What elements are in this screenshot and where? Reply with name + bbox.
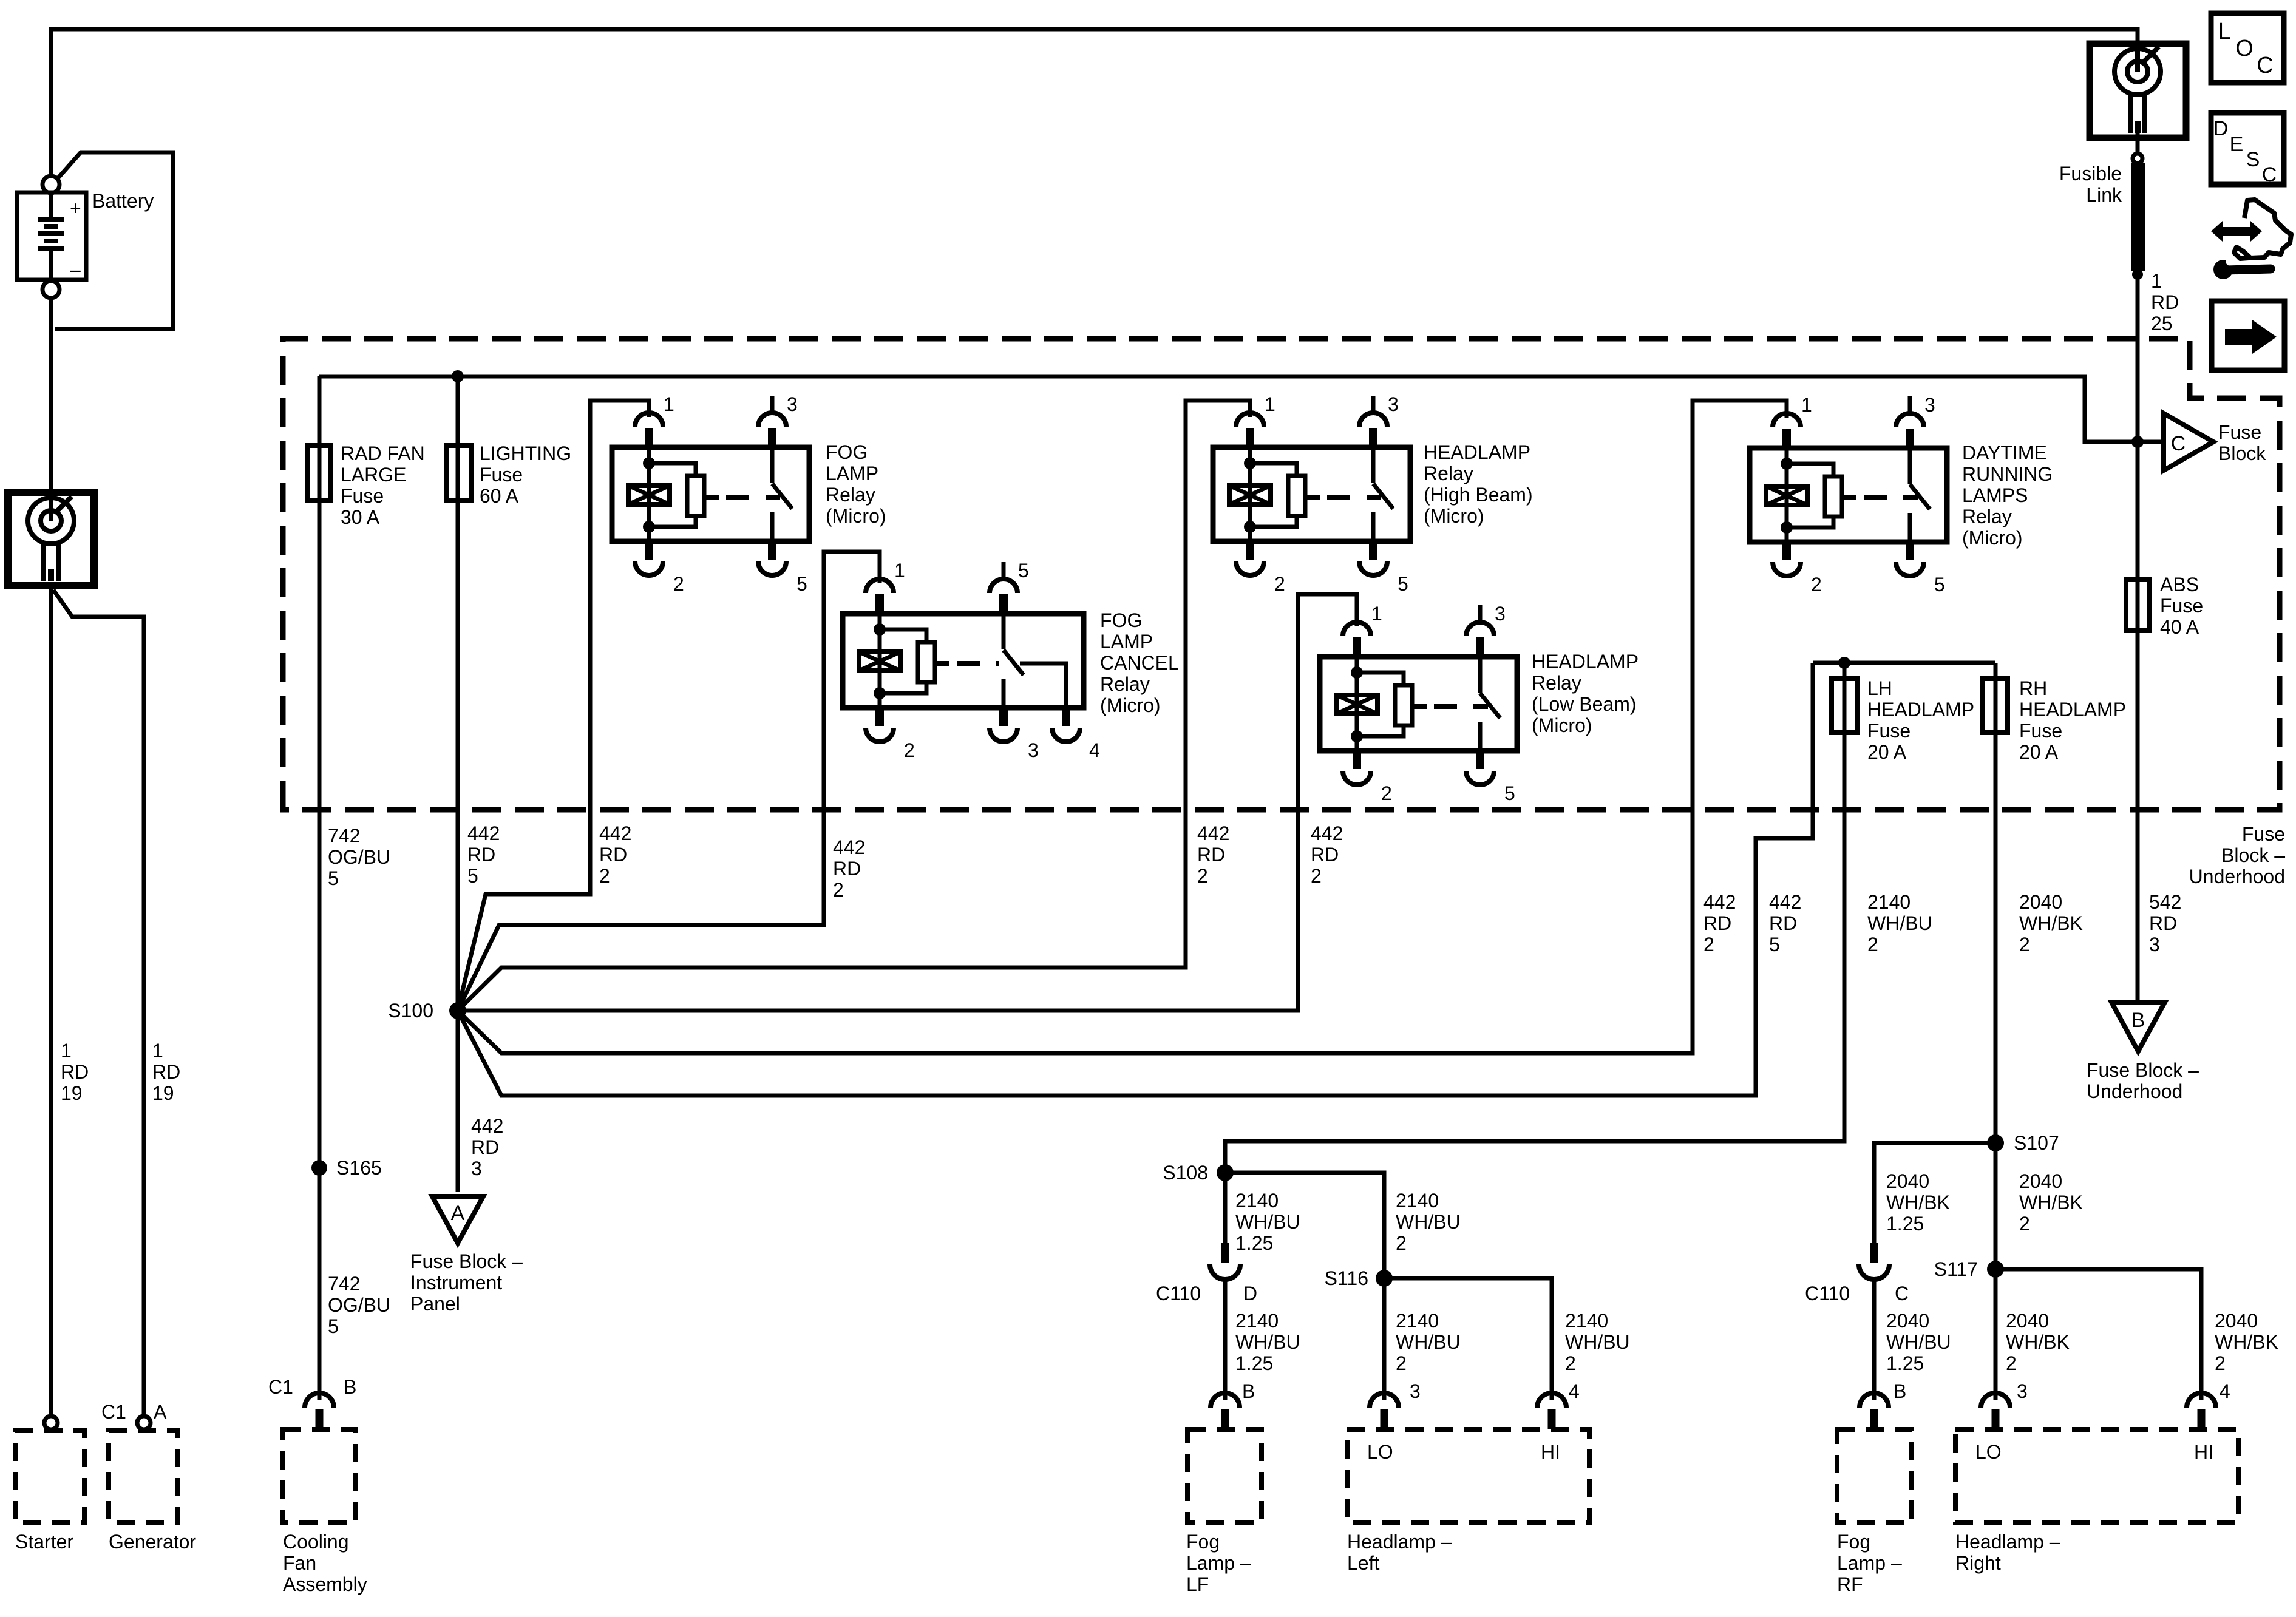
svg-text:WH/BU: WH/BU: [1235, 1211, 1300, 1233]
LH headlamp fuse: [1832, 679, 1857, 733]
svg-text:Fuse Block –: Fuse Block –: [2087, 1059, 2199, 1081]
svg-text:2140: 2140: [1235, 1310, 1279, 1332]
svg-text:(Micro): (Micro): [1532, 714, 1592, 736]
resistor: [1288, 476, 1305, 516]
svg-text:3: 3: [787, 393, 798, 415]
svg-text:4: 4: [1089, 739, 1100, 761]
svg-text:1: 1: [664, 393, 674, 415]
svg-text:HEADLAMP: HEADLAMP: [1867, 699, 1974, 720]
svg-text:2: 2: [833, 879, 844, 901]
svg-text:HEADLAMP: HEADLAMP: [1424, 441, 1530, 463]
svg-text:20 A: 20 A: [1867, 741, 1907, 763]
svg-text:Relay: Relay: [1100, 673, 1150, 695]
junction at lighting fuse riser: [452, 370, 464, 382]
svg-text:Headlamp –: Headlamp –: [1955, 1531, 2060, 1553]
pin 5: [1369, 541, 1377, 560]
svg-text:Block: Block: [2218, 442, 2266, 464]
svg-text:2140: 2140: [1565, 1310, 1608, 1332]
svg-text:Underhood: Underhood: [2087, 1080, 2182, 1102]
battery BAT- terminal (circle): [42, 281, 59, 298]
cooling fan pin B connector: [305, 1393, 334, 1408]
svg-text:442: 442: [1197, 822, 1229, 844]
svg-text:Cooling: Cooling: [283, 1531, 349, 1553]
pin 5: [1476, 751, 1484, 769]
coil: [1336, 695, 1377, 714]
svg-text:HEADLAMP: HEADLAMP: [1532, 651, 1639, 673]
generator component box: [109, 1431, 178, 1522]
pin 1: [1353, 637, 1361, 657]
svg-text:Left: Left: [1347, 1552, 1379, 1574]
svg-text:WH/BU: WH/BU: [1565, 1331, 1630, 1353]
svg-text:S: S: [2246, 148, 2260, 171]
fuse block underhood dashed outline: [283, 339, 2280, 810]
svg-text:OG/BU: OG/BU: [328, 1294, 390, 1316]
svg-text:4: 4: [1569, 1380, 1580, 1402]
switch: [770, 447, 775, 483]
svg-text:(Low Beam): (Low Beam): [1532, 693, 1637, 715]
wire: 442 RD 2 S100 to fog lamp relay pin 1: [458, 401, 649, 1011]
svg-text:RD: RD: [1197, 844, 1225, 866]
svg-text:RD: RD: [833, 858, 861, 880]
svg-text:Battery: Battery: [92, 190, 154, 212]
svg-text:HI: HI: [2194, 1441, 2213, 1463]
svg-text:D: D: [1243, 1283, 1257, 1304]
svg-text:S100: S100: [388, 1000, 433, 1022]
svg-text:LH: LH: [1867, 677, 1892, 699]
svg-text:2040: 2040: [1886, 1310, 1929, 1332]
wire: 442 RD 2 S100 to high beam relay pin 1: [458, 401, 1250, 1011]
svg-text:C1: C1: [268, 1376, 293, 1398]
switch: [1908, 448, 1912, 484]
svg-text:ABS: ABS: [2160, 574, 2199, 595]
pin 3: [1476, 637, 1484, 657]
battery box: [17, 192, 86, 280]
svg-text:RD: RD: [1769, 912, 1797, 934]
svg-text:20 A: 20 A: [2019, 741, 2059, 763]
svg-text:2: 2: [2019, 934, 2030, 955]
svg-text:5: 5: [1398, 573, 1408, 595]
fog lamp RF component box: [1837, 1429, 1912, 1522]
svg-text:1.25: 1.25: [1886, 1352, 1924, 1374]
svg-text:OG/BU: OG/BU: [328, 846, 390, 868]
headlamp right pin 4 connector: [2187, 1393, 2216, 1408]
wire: S116 branch to headlamp left HI: [1384, 1278, 1552, 1400]
svg-text:542: 542: [2149, 891, 2181, 913]
svg-text:Fusible: Fusible: [2059, 163, 2122, 185]
svg-text:442: 442: [599, 822, 631, 844]
svg-text:5: 5: [328, 867, 339, 889]
svg-text:WH/BU: WH/BU: [1396, 1211, 1461, 1233]
wire: 1 RD 25 / 542 RD 3 down to fuse block B: [2136, 274, 2140, 1002]
resistor: [1825, 476, 1842, 517]
svg-text:S107: S107: [2014, 1132, 2059, 1154]
actuator dashed link: [957, 661, 999, 666]
lighting fuse: [447, 446, 472, 501]
svg-text:5: 5: [1018, 560, 1029, 581]
svg-text:25: 25: [2151, 313, 2173, 334]
svg-text:RH: RH: [2019, 677, 2047, 699]
coil: [1766, 486, 1807, 505]
svg-text:1.25: 1.25: [1235, 1352, 1273, 1374]
svg-text:2: 2: [2006, 1352, 2017, 1374]
svg-text:40 A: 40 A: [2160, 616, 2199, 638]
wire: 442 RD 2 S100 to low beam relay pin 1: [458, 594, 1357, 1011]
svg-text:2: 2: [1311, 865, 1322, 887]
svg-text:WH/BK: WH/BK: [2215, 1331, 2278, 1353]
svg-text:1: 1: [1371, 603, 1382, 625]
svg-text:Lamp –: Lamp –: [1186, 1552, 1251, 1574]
svg-text:Relay: Relay: [1532, 672, 1581, 694]
battery ring terminal box (fusible link feed): [2090, 44, 2186, 138]
svg-text:C: C: [2262, 163, 2277, 186]
connector C110 pin D: [1221, 1243, 1229, 1263]
RH headlamp fuse: [1982, 679, 2008, 733]
svg-text:2: 2: [1381, 782, 1392, 804]
svg-text:1: 1: [152, 1040, 163, 1062]
svg-text:442: 442: [1311, 822, 1343, 844]
svg-text:B: B: [1894, 1380, 1906, 1402]
wire: RH headlamp fuse riser / 2040 WH/BK down to headlamp right: [1994, 663, 1998, 1400]
wire: battery positive feed across top to fusible link: [51, 29, 2138, 176]
fuse block B triangle (to underhood): [2111, 1002, 2165, 1051]
svg-text:Panel: Panel: [410, 1293, 460, 1315]
wire: 442 RD 5 S100 to headlamp fuse bus: [458, 663, 1813, 1096]
svg-text:5: 5: [796, 573, 807, 595]
splice S116: [1376, 1270, 1393, 1287]
svg-text:RAD FAN: RAD FAN: [341, 442, 425, 464]
svg-text:Fuse: Fuse: [2019, 720, 2062, 742]
fog lamp LF pin B connector: [1211, 1393, 1240, 1408]
wire: LH headlamp fuse riser / 2140 WH/BU to S108: [1225, 663, 1844, 1249]
svg-text:442: 442: [471, 1115, 503, 1137]
svg-text:742: 742: [328, 1273, 360, 1295]
arrow legend box: [2212, 301, 2284, 370]
wire: S107 branch to fog lamp RF: [1874, 1143, 1995, 1249]
svg-text:C: C: [1895, 1283, 1909, 1304]
svg-text:2040: 2040: [2019, 891, 2062, 913]
wire: rad fan fuse riser / 742 OG/BU to cooling fan: [318, 376, 322, 1400]
switch with NC contact to pin 4: [1002, 614, 1006, 649]
pin 2: [645, 541, 653, 560]
actuator dashed link: [1327, 495, 1381, 500]
splice S165: [311, 1160, 327, 1176]
pin 2: [1246, 541, 1254, 560]
svg-text:C1: C1: [101, 1401, 126, 1423]
svg-text:S165: S165: [336, 1157, 382, 1179]
svg-text:Starter: Starter: [15, 1531, 73, 1553]
rad fan large fuse: [307, 446, 331, 501]
resistor: [687, 476, 704, 516]
svg-text:Fuse: Fuse: [2218, 421, 2261, 443]
pin 5: [1906, 542, 1914, 560]
svg-text:2: 2: [1867, 934, 1878, 955]
svg-text:3: 3: [2149, 934, 2160, 955]
junction below fusible link: [2132, 269, 2143, 280]
headlamp right pin 3 connector: [1981, 1393, 2010, 1408]
splice S117: [1987, 1261, 2004, 1278]
svg-text:2040: 2040: [1886, 1170, 1929, 1192]
svg-text:Headlamp –: Headlamp –: [1347, 1531, 1452, 1553]
svg-text:2: 2: [904, 739, 915, 761]
svg-text:RD: RD: [2149, 912, 2177, 934]
svg-text:RD: RD: [599, 844, 627, 866]
svg-text:4: 4: [2220, 1380, 2230, 1402]
svg-text:Fuse: Fuse: [2160, 595, 2203, 617]
svg-text:–: –: [70, 259, 81, 280]
svg-text:3: 3: [1495, 603, 1506, 625]
actuator dashed link: [1864, 495, 1918, 500]
wire: ring terminal to fusible link: [2136, 133, 2140, 154]
svg-text:WH/BU: WH/BU: [1235, 1331, 1300, 1353]
battery B+ terminal (circle): [42, 176, 59, 193]
svg-text:5: 5: [1769, 934, 1780, 955]
svg-text:LARGE: LARGE: [341, 464, 406, 486]
resistor: [918, 642, 935, 682]
coil: [1229, 486, 1271, 504]
fuse block C triangle: [2164, 413, 2213, 470]
ring terminal symbol: [2114, 47, 2161, 133]
pin 1: [1782, 429, 1791, 448]
svg-text:2: 2: [599, 865, 610, 887]
svg-text:B: B: [344, 1376, 356, 1398]
svg-text:Underhood: Underhood: [2189, 866, 2285, 887]
svg-text:442: 442: [467, 822, 500, 844]
pin 3: [1369, 428, 1377, 447]
headlamp left component box: [1347, 1429, 1589, 1522]
svg-text:Fuse: Fuse: [2242, 823, 2285, 845]
svg-text:Instrument: Instrument: [410, 1272, 502, 1293]
svg-text:O: O: [2235, 36, 2254, 61]
headlamp left pin 4 connector: [1537, 1393, 1566, 1408]
svg-text:2: 2: [2019, 1213, 2030, 1235]
svg-text:3: 3: [1410, 1380, 1421, 1402]
wire: battery loop to starter branch: [55, 152, 173, 329]
svg-text:442: 442: [1769, 891, 1801, 913]
svg-text:2: 2: [1197, 865, 1208, 887]
service icon: wrench: [2213, 260, 2233, 279]
svg-text:742: 742: [328, 825, 360, 847]
svg-text:RUNNING: RUNNING: [1962, 463, 2053, 485]
svg-text:WH/BK: WH/BK: [2006, 1331, 2070, 1353]
generator cable terminal circle: [137, 1416, 151, 1429]
svg-text:2: 2: [1811, 574, 1822, 595]
fusible link terminal circle: [2133, 154, 2142, 163]
svg-text:WH/BU: WH/BU: [1867, 912, 1932, 934]
svg-text:1: 1: [894, 560, 905, 581]
svg-text:Fuse: Fuse: [341, 485, 384, 507]
svg-text:A: A: [154, 1401, 167, 1423]
svg-text:WH/BU: WH/BU: [1886, 1331, 1951, 1353]
svg-text:LAMP: LAMP: [1100, 631, 1153, 653]
svg-text:5: 5: [328, 1315, 339, 1337]
svg-text:C: C: [2171, 432, 2186, 455]
pin 3: [1906, 429, 1914, 448]
svg-text:442: 442: [833, 836, 865, 858]
svg-text:LAMPS: LAMPS: [1962, 484, 2028, 506]
fog lamp RF pin B connector: [1860, 1393, 1889, 1408]
svg-text:(Micro): (Micro): [826, 505, 886, 527]
actuator dashed link: [1434, 704, 1488, 709]
wire: S108 branch to S116: [1225, 1173, 1384, 1400]
relay DAYTIME RUNNING LAMPS Relay (Micro): [1750, 394, 2053, 595]
splice S108: [1217, 1164, 1234, 1181]
relay HEADLAMP Relay (Low Beam) (Micro): [1320, 603, 1639, 804]
svg-text:B: B: [2131, 1009, 2145, 1032]
pin 3: [999, 708, 1008, 726]
svg-text:WH/BU: WH/BU: [1396, 1331, 1461, 1353]
pin 2: [875, 708, 884, 726]
svg-text:E: E: [2230, 133, 2244, 156]
svg-text:WH/BK: WH/BK: [2019, 1192, 2083, 1213]
pin 5: [768, 541, 776, 560]
svg-text:LO: LO: [1367, 1441, 1393, 1463]
svg-text:2: 2: [1703, 934, 1714, 955]
svg-text:HI: HI: [1541, 1441, 1560, 1463]
pin 3: [768, 428, 776, 447]
svg-text:DAYTIME: DAYTIME: [1962, 442, 2047, 464]
svg-text:Fan: Fan: [283, 1552, 316, 1574]
svg-text:19: 19: [152, 1082, 174, 1104]
svg-text:1: 1: [1265, 393, 1275, 415]
svg-text:D: D: [2213, 117, 2229, 140]
svg-text:(Micro): (Micro): [1962, 527, 2023, 549]
svg-text:60 A: 60 A: [480, 485, 519, 507]
svg-text:FOG: FOG: [826, 441, 868, 463]
svg-text:2040: 2040: [2019, 1170, 2062, 1192]
starter ring terminal box: [8, 492, 94, 586]
splice S100: [449, 1002, 466, 1019]
svg-text:19: 19: [61, 1082, 83, 1104]
svg-text:1: 1: [1801, 394, 1812, 416]
pin 5: [999, 594, 1008, 614]
wire: 442 RD 2 S100 to daytime running lamps relay pin 1: [458, 401, 1787, 1053]
fusible link element: [2131, 163, 2145, 271]
wire: 2140 WH/BU 1.25 to fog lamp LF: [1223, 1280, 1228, 1400]
switch: [1478, 657, 1483, 693]
battery cell plates: [38, 193, 64, 281]
wire: 442 RD 2 S100 to fog lamp cancel relay pin 1: [458, 552, 880, 1011]
svg-text:RD: RD: [471, 1136, 499, 1158]
pin 2: [1353, 751, 1361, 769]
svg-text:FOG: FOG: [1100, 609, 1142, 631]
wire: S117 branch to headlamp right HI: [1995, 1269, 2201, 1400]
svg-text:C110: C110: [1156, 1283, 1201, 1304]
pin 1: [875, 594, 884, 614]
svg-text:CANCEL: CANCEL: [1100, 652, 1179, 674]
svg-text:Fuse: Fuse: [1867, 720, 1911, 742]
svg-text:5: 5: [1504, 782, 1515, 804]
starter cable terminal circle: [44, 1416, 58, 1429]
svg-text:2140: 2140: [1867, 891, 1911, 913]
svg-text:1: 1: [61, 1040, 72, 1062]
headlamp right component box: [1955, 1429, 2238, 1522]
coil: [628, 486, 670, 504]
service icon: connector outline: [2234, 200, 2291, 259]
wire: starter cable 1 RD 19: [49, 586, 53, 1415]
svg-text:LO: LO: [1975, 1441, 2002, 1463]
headlamp left pin 3 connector: [1370, 1393, 1399, 1408]
svg-text:LIGHTING: LIGHTING: [480, 442, 571, 464]
junction of bus with 542 RD feed: [2131, 436, 2144, 448]
svg-text:2040: 2040: [2215, 1310, 2258, 1332]
svg-text:2: 2: [673, 573, 684, 595]
svg-text:RD: RD: [61, 1061, 89, 1083]
svg-text:3: 3: [471, 1158, 482, 1179]
relay FOG LAMP Relay (Micro): [612, 393, 886, 595]
pin 1: [645, 428, 653, 447]
svg-text:+: +: [70, 197, 81, 219]
svg-text:3: 3: [1924, 394, 1935, 416]
svg-text:WH/BK: WH/BK: [1886, 1192, 1950, 1213]
svg-text:LAMP: LAMP: [826, 463, 878, 484]
svg-text:L: L: [2218, 19, 2230, 44]
svg-text:C110: C110: [1805, 1283, 1850, 1304]
svg-text:Relay: Relay: [1424, 463, 1473, 484]
svg-text:Assembly: Assembly: [283, 1573, 367, 1595]
svg-text:1.25: 1.25: [1886, 1213, 1924, 1235]
svg-text:5: 5: [467, 865, 478, 887]
wire: headlamp fuse bus: [1813, 661, 1995, 665]
svg-text:5: 5: [1934, 574, 1945, 595]
cooling fan assembly component box: [283, 1429, 356, 1522]
relay HEADLAMP Relay (High Beam) (Micro): [1213, 393, 1533, 595]
svg-text:2040: 2040: [2006, 1310, 2049, 1332]
starter ring terminal symbol: [28, 497, 74, 581]
splice S107: [1987, 1134, 2004, 1151]
LOC legend box: [2211, 13, 2284, 83]
svg-text:S117: S117: [1934, 1258, 1978, 1280]
svg-text:Fuse: Fuse: [480, 464, 523, 486]
svg-text:2140: 2140: [1396, 1310, 1439, 1332]
svg-text:C: C: [2257, 53, 2273, 78]
svg-text:30 A: 30 A: [341, 506, 380, 528]
svg-text:WH/BK: WH/BK: [2019, 912, 2083, 934]
svg-text:2: 2: [1274, 573, 1285, 595]
coil: [859, 652, 900, 671]
svg-text:2140: 2140: [1396, 1190, 1439, 1212]
svg-text:RD: RD: [2151, 291, 2179, 313]
service icon: double arrow: [2211, 221, 2262, 242]
svg-text:RD: RD: [1703, 912, 1731, 934]
svg-text:RD: RD: [152, 1061, 180, 1083]
svg-text:RF: RF: [1837, 1573, 1863, 1595]
relay FOG LAMP CANCEL Relay (Micro): [843, 560, 1179, 761]
svg-text:3: 3: [1028, 739, 1039, 761]
wire: battery negative down to starter ring terminal: [49, 298, 53, 492]
connector C110 pin C: [1870, 1243, 1878, 1263]
svg-text:Relay: Relay: [826, 484, 875, 506]
pin 1: [1246, 428, 1254, 447]
svg-text:RD: RD: [467, 844, 495, 866]
svg-text:RD: RD: [1311, 844, 1339, 866]
svg-text:1: 1: [2151, 270, 2162, 292]
svg-text:S108: S108: [1163, 1162, 1208, 1184]
svg-text:Fog: Fog: [1837, 1531, 1870, 1553]
svg-text:2140: 2140: [1235, 1190, 1279, 1212]
svg-text:S116: S116: [1325, 1267, 1368, 1289]
svg-text:2: 2: [1565, 1352, 1576, 1374]
pin 4: [1062, 708, 1070, 726]
svg-text:LF: LF: [1186, 1573, 1209, 1595]
fuse block A triangle (to instrument panel): [432, 1196, 483, 1243]
svg-text:Fuse Block –: Fuse Block –: [410, 1250, 523, 1272]
wire: 2040 WH/BU 1.25 to fog lamp RF: [1872, 1280, 1877, 1400]
wire: main feed bus inside fuse block: [319, 376, 2164, 442]
svg-text:Right: Right: [1955, 1552, 2001, 1574]
junction at LH headlamp fuse: [1838, 657, 1850, 669]
svg-text:442: 442: [1703, 891, 1736, 913]
svg-text:3: 3: [2017, 1380, 2028, 1402]
